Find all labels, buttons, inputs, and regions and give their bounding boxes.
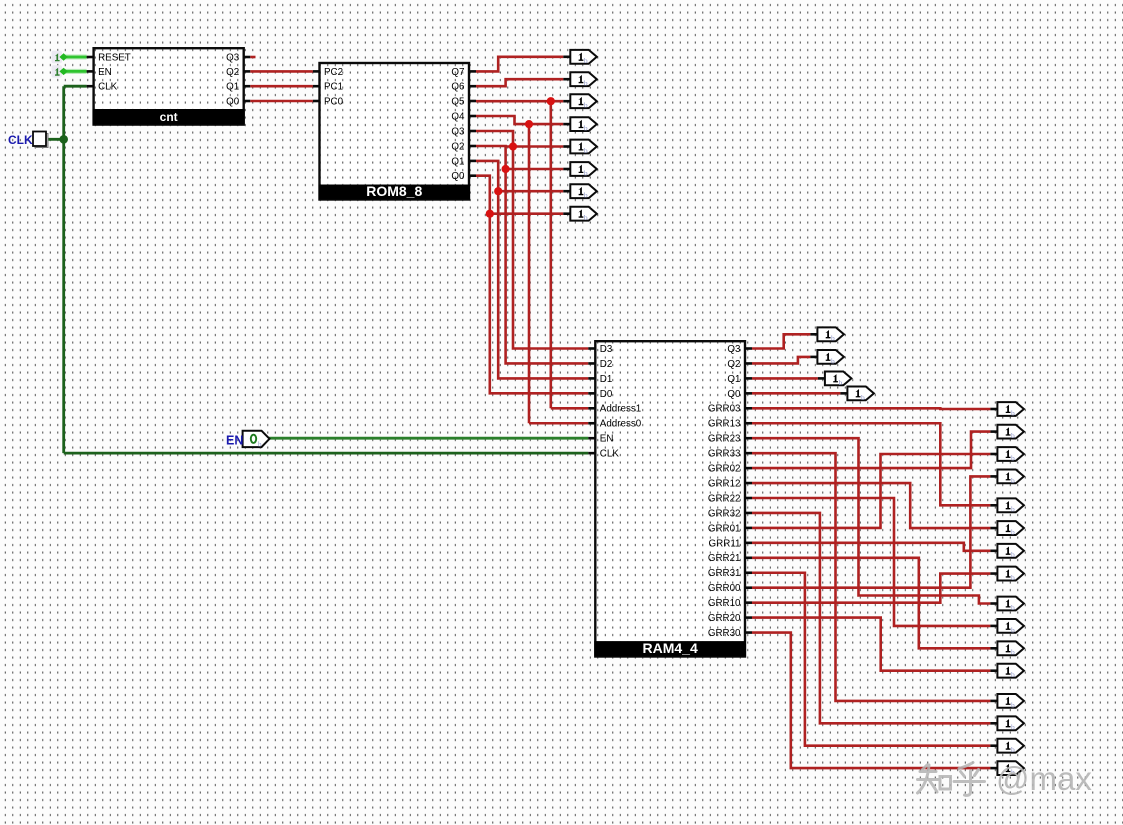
svg-text:Address0: Address0 — [600, 419, 642, 430]
svg-text:GRR31: GRR31 — [708, 568, 741, 579]
svg-text:GRR01: GRR01 — [708, 523, 741, 534]
svg-text:b: b — [584, 213, 588, 222]
svg-text:b: b — [1011, 700, 1015, 709]
svg-text:cnt: cnt — [160, 110, 178, 124]
svg-text:GRR13: GRR13 — [708, 419, 741, 430]
svg-text:Q0: Q0 — [727, 389, 741, 400]
svg-text:EN: EN — [600, 434, 614, 445]
svg-text:GRR21: GRR21 — [708, 553, 741, 564]
svg-text:PC2: PC2 — [324, 67, 343, 78]
svg-text:Address1: Address1 — [600, 404, 641, 415]
svg-text:RAM4_4: RAM4_4 — [643, 640, 698, 656]
svg-text:b: b — [1011, 745, 1015, 754]
svg-text:Q4: Q4 — [451, 111, 465, 122]
svg-text:CLK: CLK — [8, 133, 33, 147]
svg-text:D0: D0 — [600, 389, 613, 400]
svg-text:RESET: RESET — [98, 52, 131, 63]
svg-text:Q1: Q1 — [451, 156, 464, 167]
svg-text:b: b — [258, 441, 262, 449]
svg-text:b: b — [1011, 505, 1015, 514]
svg-text:b: b — [1011, 408, 1015, 417]
svg-text:b: b — [1011, 476, 1015, 485]
svg-text:b: b — [584, 56, 588, 65]
svg-text:b: b — [1011, 603, 1015, 612]
svg-text:EN: EN — [226, 433, 243, 447]
svg-text:b: b — [839, 378, 843, 387]
svg-text:b: b — [831, 334, 835, 343]
svg-text:Q3: Q3 — [727, 344, 741, 355]
svg-text:GRR00: GRR00 — [708, 583, 741, 594]
svg-text:GRR30: GRR30 — [708, 628, 741, 639]
svg-text:GRR02: GRR02 — [708, 464, 741, 475]
svg-text:Q7: Q7 — [451, 67, 464, 78]
svg-text:D2: D2 — [600, 359, 613, 370]
svg-text:Q3: Q3 — [226, 52, 240, 63]
svg-text:GRR03: GRR03 — [708, 404, 741, 415]
svg-text:b: b — [1011, 527, 1015, 536]
svg-text:b: b — [1011, 431, 1015, 440]
svg-text:Q2: Q2 — [727, 359, 740, 370]
svg-text:Q3: Q3 — [451, 126, 465, 137]
svg-text:EN: EN — [98, 67, 112, 78]
svg-text:ROM8_8: ROM8_8 — [366, 183, 422, 199]
svg-text:D3: D3 — [600, 344, 613, 355]
svg-text:@max: @max — [996, 760, 1092, 797]
svg-text:CLK: CLK — [98, 82, 118, 93]
svg-text:Q1: Q1 — [727, 374, 740, 385]
svg-text:b: b — [861, 393, 865, 402]
svg-text:b: b — [1011, 723, 1015, 732]
svg-text:D1: D1 — [600, 374, 613, 385]
svg-text:PC1: PC1 — [324, 82, 343, 93]
svg-text:Q2: Q2 — [451, 141, 464, 152]
svg-text:b: b — [584, 124, 588, 133]
svg-text:b: b — [584, 191, 588, 200]
svg-text:GRR33: GRR33 — [708, 449, 741, 460]
svg-text:Q2: Q2 — [226, 67, 239, 78]
svg-text:b: b — [1011, 625, 1015, 634]
svg-text:b: b — [1011, 670, 1015, 679]
svg-text:b: b — [1011, 453, 1015, 462]
svg-text:Q5: Q5 — [451, 96, 465, 107]
svg-text:b: b — [1011, 648, 1015, 657]
svg-text:Q0: Q0 — [451, 171, 465, 182]
svg-text:b: b — [584, 146, 588, 155]
svg-text:GRR32: GRR32 — [708, 508, 741, 519]
svg-text:GRR10: GRR10 — [708, 598, 741, 609]
svg-text:Q6: Q6 — [451, 82, 465, 93]
svg-text:Q0: Q0 — [226, 96, 240, 107]
svg-text:GRR23: GRR23 — [708, 434, 741, 445]
svg-text:b: b — [584, 79, 588, 88]
svg-text:b: b — [584, 168, 588, 177]
svg-text:b: b — [584, 101, 588, 110]
svg-text:GRR11: GRR11 — [709, 538, 741, 549]
svg-text:GRR12: GRR12 — [708, 478, 741, 489]
svg-text:b: b — [1011, 550, 1015, 559]
svg-text:CLK: CLK — [600, 449, 620, 460]
svg-text:Q1: Q1 — [226, 82, 239, 93]
svg-text:PC0: PC0 — [324, 96, 344, 107]
svg-text:GRR20: GRR20 — [708, 613, 741, 624]
svg-text:b: b — [831, 356, 835, 365]
svg-text:GRR22: GRR22 — [708, 493, 741, 504]
svg-text:b: b — [1011, 573, 1015, 582]
